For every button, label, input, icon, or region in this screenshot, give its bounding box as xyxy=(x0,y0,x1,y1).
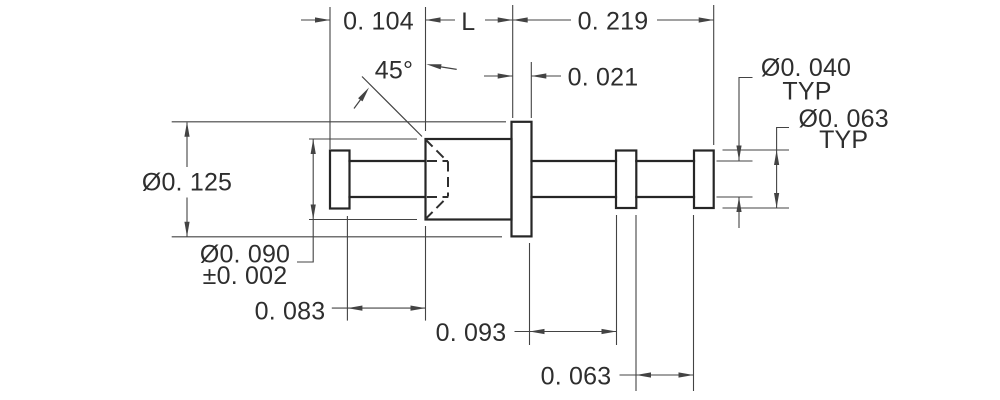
hidden hole end xyxy=(447,162,449,197)
extension line x713.7 xyxy=(713,5,715,145)
extension line x636 bottom xyxy=(635,215,637,391)
svg-text:0. 021: 0. 021 xyxy=(568,63,639,91)
extension line x347.4 bottom xyxy=(346,216,348,321)
dimension dia 0.090 +/-0.002 xyxy=(297,139,316,262)
svg-text:0. 063: 0. 063 xyxy=(541,363,612,391)
svg-text:Ø0. 125: Ø0. 125 xyxy=(142,168,232,196)
extension line x330 xyxy=(329,7,331,149)
extension line shaft top right xyxy=(717,160,753,162)
extension line collar2 bottom right xyxy=(723,207,790,209)
extension line x693.5 bottom xyxy=(693,215,695,391)
collar 2 xyxy=(694,151,714,209)
shaft segment 3 (collar 1 to collar 2) xyxy=(636,161,694,197)
extension line x512.7 xyxy=(512,5,514,118)
svg-text:±0. 002: ±0. 002 xyxy=(203,262,288,290)
collar 1 xyxy=(616,151,636,209)
extension line x616.5 bottom xyxy=(616,215,618,345)
shaft segment 1 (head to body) xyxy=(350,161,426,197)
hidden hole bottom edge xyxy=(427,196,448,198)
body (length L) xyxy=(426,139,512,220)
dimension 0.063 xyxy=(620,372,694,377)
svg-text:TYP: TYP xyxy=(819,126,868,154)
dimension 0.219 xyxy=(513,17,714,22)
svg-text:0. 083: 0. 083 xyxy=(255,297,326,325)
extension line x531.3 xyxy=(530,62,532,118)
extension line flange top xyxy=(172,121,506,123)
svg-text:45°: 45° xyxy=(375,56,413,84)
svg-text:0. 104: 0. 104 xyxy=(343,7,414,35)
dimension dia 0.040 TYP xyxy=(736,78,752,229)
dimension 0.093 xyxy=(515,329,617,334)
extension line body bottom xyxy=(309,219,417,221)
hidden hole top edge xyxy=(427,160,448,162)
dimension dia 0.125 xyxy=(184,122,189,237)
extension line shaft bottom right xyxy=(717,196,753,198)
extension line x425.5 top xyxy=(425,7,427,131)
extension line flange bottom xyxy=(172,236,502,238)
extension line body top xyxy=(309,138,417,140)
extension line x425.5 bottom xyxy=(425,226,427,321)
chamfer 45 note xyxy=(354,64,457,136)
hidden chamfer bottom diagonal xyxy=(426,197,449,220)
extension line collar2 top right xyxy=(723,149,790,151)
svg-text:0. 219: 0. 219 xyxy=(578,7,649,35)
dimension 0.083 xyxy=(332,306,426,311)
dimension 0.104 xyxy=(301,17,455,22)
hidden chamfer top diagonal xyxy=(426,140,449,163)
svg-text:TYP: TYP xyxy=(782,77,831,105)
extension line x529.5 bottom xyxy=(529,243,531,345)
svg-text:L: L xyxy=(461,8,475,36)
svg-text:0. 093: 0. 093 xyxy=(436,319,507,347)
flange xyxy=(512,122,532,237)
shaft segment 2 (flange to collar 1) xyxy=(532,161,617,197)
head (left pin head) xyxy=(330,151,350,209)
dimension L xyxy=(485,17,513,22)
dimension dia 0.063 TYP xyxy=(774,128,789,209)
dimension 0.021 xyxy=(484,73,561,78)
